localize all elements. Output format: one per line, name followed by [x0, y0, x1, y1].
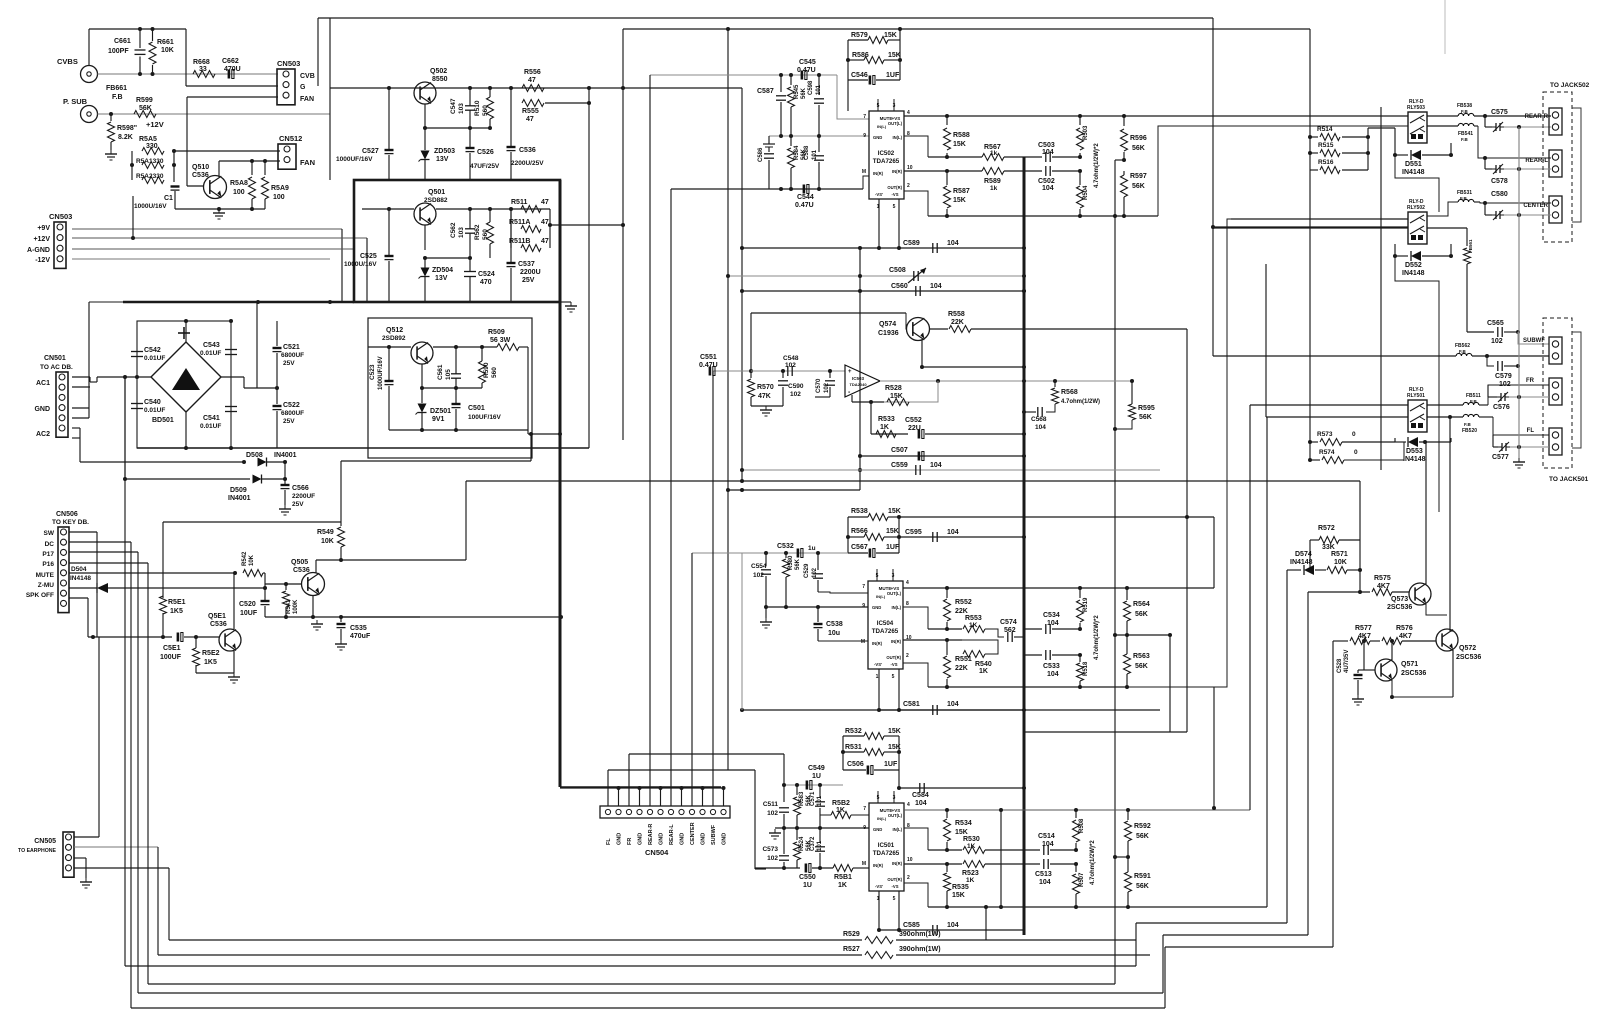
svg-text:R598": R598"	[117, 125, 137, 132]
capacitor C579	[1487, 356, 1494, 366]
zener DZ501	[418, 404, 427, 413]
svg-text:IN4148: IN4148	[1402, 270, 1425, 277]
svg-text:CN503: CN503	[49, 212, 72, 221]
ground	[1518, 458, 1520, 462]
svg-text:M: M	[861, 639, 865, 645]
svg-text:R586: R586	[852, 52, 869, 59]
svg-text:IN(L): IN(L)	[892, 135, 902, 140]
wire C507 row	[860, 455, 1024, 457]
svg-text:R508: R508	[1079, 818, 1085, 833]
svg-text:10u: 10u	[828, 630, 840, 637]
resistor R598	[110, 114, 112, 121]
ferrite FB562	[1456, 353, 1472, 356]
wire AC2 pair	[72, 427, 80, 429]
regulator box Q501	[354, 180, 560, 302]
op-amp IC502 TDA7265	[869, 111, 904, 199]
svg-text:R556: R556	[524, 69, 541, 76]
svg-text:IN(L): IN(L)	[892, 827, 902, 832]
wire R553 row	[928, 628, 962, 630]
svg-text:R531: R531	[845, 744, 862, 751]
svg-text:15K: 15K	[888, 52, 901, 59]
svg-text:100PF: 100PF	[108, 48, 129, 55]
svg-text:R552: R552	[955, 599, 972, 606]
svg-text:Q510: Q510	[192, 164, 209, 171]
capacitor C570	[829, 371, 831, 378]
resistor R549	[340, 522, 342, 526]
svg-text:R509: R509	[488, 329, 505, 336]
svg-text:Q512: Q512	[386, 327, 403, 334]
svg-text:-VS': -VS'	[874, 662, 882, 667]
svg-text:M: M	[862, 861, 866, 867]
wire -VS row	[878, 199, 880, 248]
svg-text:C547: C547	[450, 98, 457, 114]
svg-text:1K: 1K	[836, 807, 845, 814]
resistor R5A1	[142, 162, 164, 169]
svg-text:8550: 8550	[432, 76, 448, 83]
wire y490 row	[728, 489, 860, 491]
svg-text:GND: GND	[638, 833, 644, 845]
resistor R532	[843, 735, 864, 737]
svg-text:R538: R538	[851, 508, 868, 515]
svg-text:-12V: -12V	[35, 257, 50, 264]
capacitor C506	[867, 766, 870, 775]
capacitor C546	[869, 76, 872, 85]
wire gnd pins bus	[607, 770, 609, 806]
svg-text:R511B: R511B	[509, 238, 530, 245]
wire return bus	[1518, 127, 1520, 458]
wire top rail 1	[318, 17, 1213, 19]
resistor R5A9	[264, 161, 266, 175]
resistor FB561	[1466, 228, 1468, 246]
wire IN(R) row	[904, 170, 960, 172]
svg-text:C529: C529	[804, 563, 810, 578]
svg-text:102: 102	[824, 382, 830, 393]
svg-text:R661: R661	[157, 39, 174, 46]
svg-text:56K: 56K	[1132, 145, 1145, 152]
svg-text:1U: 1U	[803, 882, 812, 889]
svg-text:F.B: F.B	[1461, 109, 1469, 114]
svg-text:R553: R553	[965, 615, 982, 622]
dashed jack501 outline	[1543, 318, 1572, 468]
svg-text:C508: C508	[889, 267, 906, 274]
resistor R576	[1382, 638, 1402, 645]
resistor R5B1	[833, 865, 853, 872]
svg-text:IN(R): IN(R)	[872, 641, 883, 646]
wire Q501 row	[362, 208, 414, 210]
wire FL signal	[1493, 417, 1549, 435]
svg-text:C540: C540	[144, 399, 161, 406]
wire long vertical x1115	[1114, 216, 1116, 984]
svg-text:9: 9	[863, 825, 866, 831]
svg-text:Q502: Q502	[430, 68, 447, 75]
svg-text:FAN: FAN	[300, 158, 315, 167]
capacitor C550	[755, 867, 800, 869]
svg-text:1: 1	[876, 674, 879, 680]
wire Q512 row	[368, 346, 411, 348]
wire out corner to REAR-L	[1158, 126, 1408, 216]
svg-text:390ohm(1W): 390ohm(1W)	[899, 946, 941, 953]
capacitor C551	[709, 367, 712, 376]
wire rear-l signal	[1478, 126, 1551, 158]
wire top rail 2	[623, 28, 1310, 30]
svg-text:C565: C565	[1487, 320, 1504, 327]
svg-text:-VS': -VS'	[875, 884, 883, 889]
svg-text:56K: 56K	[1135, 611, 1148, 618]
svg-text:C538: C538	[826, 621, 843, 628]
svg-text:F.B: F.B	[1464, 422, 1472, 427]
wire C560 row	[742, 290, 1024, 292]
resistor R577	[1333, 640, 1348, 642]
ground	[218, 209, 220, 213]
svg-text:FB561: FB561	[1468, 239, 1473, 253]
svg-text:56 3W: 56 3W	[490, 337, 511, 344]
svg-text:F.B: F.B	[1470, 399, 1478, 404]
svg-text:C571: C571	[810, 791, 816, 806]
svg-text:R558: R558	[948, 311, 965, 318]
bridge rectifier BD501	[151, 342, 221, 412]
svg-text:GND: GND	[873, 827, 882, 832]
wire emitter	[921, 340, 923, 367]
svg-text:9: 9	[862, 603, 865, 609]
capacitor C526	[469, 128, 471, 147]
wire OUT(L) row	[904, 809, 1250, 811]
svg-text:R533: R533	[878, 416, 895, 423]
resistor R575	[1372, 589, 1392, 596]
svg-text:R551: R551	[955, 656, 972, 663]
svg-text:2200UF: 2200UF	[292, 493, 315, 500]
svg-text:R590: R590	[483, 362, 490, 378]
resistor R558	[929, 328, 948, 330]
svg-text:1K: 1K	[966, 877, 975, 884]
svg-text:D552: D552	[1405, 262, 1422, 269]
svg-text:R5B2: R5B2	[832, 800, 850, 807]
svg-text:C502: C502	[1038, 178, 1055, 185]
svg-text:C536: C536	[293, 567, 310, 574]
svg-text:Q571: Q571	[1401, 661, 1418, 668]
connector CN504	[600, 806, 730, 818]
svg-text:DZ501: DZ501	[430, 408, 451, 415]
svg-text:R511A: R511A	[509, 219, 530, 226]
svg-text:R518: R518	[1083, 661, 1089, 676]
wire input row rear-r	[650, 74, 837, 76]
svg-text:101: 101	[817, 795, 823, 806]
wire collector Q510	[218, 161, 220, 177]
resistor R511B	[521, 245, 541, 252]
capacitor C585 row	[879, 929, 1024, 931]
wire thick bus x1024	[1023, 157, 1026, 935]
wire output	[880, 380, 1132, 382]
wire relay3 in1	[1250, 404, 1408, 406]
svg-text:C533: C533	[1043, 663, 1060, 670]
wire collector	[233, 573, 235, 629]
wire q571 base	[1364, 669, 1375, 671]
svg-text:7: 7	[863, 114, 866, 120]
svg-text:R584: R584	[794, 145, 800, 160]
capacitor C547	[465, 105, 475, 107]
svg-text:4: 4	[907, 802, 910, 808]
capacitor C533	[1024, 654, 1042, 656]
svg-text:OUT(L): OUT(L)	[888, 813, 903, 818]
svg-text:104: 104	[1047, 620, 1059, 627]
resistor R592	[1127, 810, 1129, 820]
svg-text:56K: 56K	[1136, 833, 1149, 840]
dashed jack502 outline	[1543, 92, 1572, 242]
svg-text:4K7: 4K7	[1399, 633, 1412, 640]
svg-text:IN4001: IN4001	[274, 452, 297, 459]
svg-text:10: 10	[907, 857, 913, 863]
wire R567 row	[928, 156, 960, 158]
svg-text:R528: R528	[885, 385, 902, 392]
svg-text:GND: GND	[873, 135, 882, 140]
resistor R589	[982, 168, 1004, 175]
transistor Q573	[1409, 583, 1431, 605]
wire OUT(R) jog	[904, 191, 928, 216]
wire bottom bus 3	[125, 965, 1136, 967]
op-amp IC504 TDA7265	[868, 581, 903, 669]
ferrite FB538	[1458, 113, 1474, 116]
svg-text:330: 330	[146, 143, 158, 150]
svg-text:0.47U: 0.47U	[797, 67, 816, 74]
svg-text:C507: C507	[891, 447, 908, 454]
svg-text:105: 105	[445, 369, 452, 380]
transistor Q501	[414, 203, 436, 225]
capacitor C577	[1492, 435, 1494, 447]
svg-text:R534: R534	[955, 820, 972, 827]
wire bottom bus 1 R529 row	[169, 939, 862, 941]
svg-text:25V: 25V	[292, 501, 304, 508]
ground	[751, 405, 783, 407]
svg-text:25V: 25V	[283, 418, 295, 425]
wire IN(L) jog	[904, 136, 928, 157]
resistor R5A5	[131, 151, 133, 180]
wire relay coil	[1367, 128, 1369, 170]
resistor R545	[790, 75, 792, 85]
capacitor C527	[388, 88, 390, 149]
capacitor C514	[1043, 845, 1045, 855]
svg-text:C552: C552	[905, 417, 922, 424]
svg-text:C536: C536	[192, 172, 209, 179]
svg-text:R599: R599	[136, 97, 153, 104]
capacitor C532	[797, 549, 800, 558]
capacitor C581 row	[879, 709, 1024, 711]
svg-text:IC502: IC502	[878, 150, 895, 157]
diode D552	[1394, 244, 1396, 256]
wire x1187	[1186, 329, 1188, 732]
wire +9V	[72, 228, 342, 230]
svg-text:TO KEY DB.: TO KEY DB.	[52, 519, 89, 526]
svg-text:6800UF: 6800UF	[281, 352, 304, 359]
ground	[233, 673, 235, 677]
svg-text:1UF: 1UF	[886, 72, 900, 79]
svg-text:C525: C525	[360, 253, 377, 260]
svg-text:102: 102	[790, 391, 801, 398]
svg-text:5: 5	[892, 674, 895, 680]
svg-text:390ohm(1W): 390ohm(1W)	[899, 931, 941, 938]
svg-text:IC504: IC504	[877, 620, 894, 627]
resistor R579	[848, 39, 868, 41]
capacitor C1	[171, 185, 180, 187]
svg-text:C1: C1	[164, 195, 173, 202]
svg-text:R572: R572	[1318, 525, 1335, 532]
svg-text:R577: R577	[1355, 625, 1372, 632]
svg-text:RLY502: RLY502	[1407, 205, 1425, 211]
svg-text:M: M	[862, 169, 866, 175]
svg-text:104: 104	[930, 462, 942, 469]
wire emitter	[233, 651, 235, 673]
svg-text:D553: D553	[1406, 448, 1423, 455]
transistor Q502	[414, 82, 436, 104]
svg-text:56K: 56K	[139, 105, 152, 112]
capacitor C574	[1007, 632, 1009, 642]
svg-text:IN(L): IN(L)	[876, 594, 886, 599]
svg-text:33: 33	[199, 66, 207, 73]
svg-text:102: 102	[753, 572, 764, 579]
wire emitter	[424, 104, 426, 146]
svg-text:2: 2	[907, 183, 910, 189]
svg-text:C575: C575	[1491, 109, 1508, 116]
svg-text:22K: 22K	[951, 319, 964, 326]
svg-text:FR: FR	[627, 838, 633, 845]
svg-text:22U: 22U	[908, 425, 921, 432]
wire row	[265, 616, 420, 618]
svg-text:2SC536: 2SC536	[1401, 670, 1426, 677]
diode D509	[125, 478, 250, 480]
svg-text:OUT(R): OUT(R)	[887, 185, 902, 190]
svg-text:102: 102	[785, 362, 796, 369]
transistor Q505	[302, 573, 325, 596]
capacitor C587	[780, 75, 782, 92]
wire bottom bus 6	[131, 1007, 1165, 1009]
svg-text:7: 7	[863, 806, 866, 812]
capacitor C508 variable	[913, 271, 915, 281]
wire in row	[671, 188, 863, 190]
wire C551 input	[713, 370, 751, 372]
capacitor C544	[803, 185, 806, 194]
svg-text:OUT(R): OUT(R)	[886, 655, 901, 660]
svg-text:C545: C545	[799, 59, 816, 66]
svg-text:GND: GND	[872, 605, 881, 610]
svg-text:RLY503: RLY503	[1407, 105, 1425, 111]
svg-text:15K: 15K	[884, 32, 897, 39]
wire q571 emitter	[1392, 680, 1453, 697]
svg-text:Z-MU: Z-MU	[38, 582, 55, 589]
resistor R574	[1310, 459, 1320, 461]
wire q571 collector	[1391, 641, 1393, 660]
svg-text:104: 104	[1047, 671, 1059, 678]
wire vertical x742 supply	[741, 88, 743, 481]
wire	[124, 377, 126, 479]
wire filter out	[550, 224, 623, 226]
capacitor C520	[264, 588, 266, 600]
svg-text:5: 5	[893, 204, 896, 210]
svg-text:101: 101	[817, 840, 823, 851]
wire C559 row	[742, 469, 1160, 471]
svg-text:C543: C543	[203, 342, 220, 349]
svg-text:562: 562	[1004, 627, 1016, 634]
wire R596 tap	[1115, 159, 1124, 161]
svg-text:100: 100	[233, 189, 245, 196]
svg-text:R568: R568	[1061, 389, 1078, 396]
resistor R590	[479, 361, 486, 383]
capacitor C571	[819, 785, 821, 798]
wire emitter q505	[312, 596, 314, 617]
resistor R583	[796, 785, 798, 795]
transistor Q5E1	[219, 629, 241, 651]
svg-text:C536: C536	[519, 147, 536, 154]
resistor R584	[790, 136, 792, 146]
capacitor C548	[787, 366, 789, 376]
wire	[847, 517, 849, 553]
resistor R523	[963, 861, 985, 868]
capacitor C567	[869, 549, 872, 558]
svg-text:R570: R570	[757, 384, 774, 391]
wire pin4	[74, 867, 169, 869]
svg-text:R527: R527	[843, 946, 860, 953]
svg-text:104: 104	[1039, 879, 1051, 886]
svg-text:2SC536: 2SC536	[1387, 604, 1412, 611]
wire signal verticals	[649, 75, 651, 770]
wire x1213 to subwf	[1213, 355, 1230, 357]
svg-text:1u: 1u	[808, 545, 816, 552]
svg-text:0.01UF: 0.01UF	[144, 355, 165, 362]
svg-text:R579: R579	[851, 32, 868, 39]
svg-text:TDA7265: TDA7265	[873, 850, 900, 857]
svg-text:R5A1330: R5A1330	[136, 158, 164, 165]
wire vertical x589	[588, 88, 590, 448]
svg-text:15K: 15K	[952, 892, 965, 899]
svg-text:R555: R555	[522, 108, 539, 115]
svg-text:560: 560	[482, 105, 489, 116]
transistor Q512	[411, 342, 433, 364]
capacitor C661	[139, 29, 141, 48]
svg-text:RLY501: RLY501	[1407, 393, 1425, 399]
ground	[774, 829, 776, 833]
svg-text:IN4148: IN4148	[1290, 559, 1313, 566]
svg-text:7: 7	[862, 584, 865, 590]
svg-text:25V: 25V	[522, 277, 535, 284]
capacitor C523	[388, 347, 390, 380]
wire AC1	[72, 376, 90, 378]
svg-text:1UF: 1UF	[886, 544, 900, 551]
svg-text:R589: R589	[984, 178, 1001, 185]
node P.SUB input jack	[81, 106, 98, 123]
svg-text:REAR-L: REAR-L	[1525, 158, 1548, 164]
svg-text:C662: C662	[222, 58, 239, 65]
capacitor C595 row	[899, 536, 1024, 538]
resistor R553	[963, 626, 985, 633]
wire G return	[185, 29, 187, 86]
svg-text:AC1: AC1	[36, 380, 50, 387]
svg-text:R562: R562	[474, 224, 481, 240]
capacitor C522	[276, 388, 278, 404]
svg-text:C535: C535	[350, 625, 367, 632]
svg-text:CN506: CN506	[56, 511, 78, 518]
svg-text:1000U/16V: 1000U/16V	[134, 203, 167, 210]
svg-text:15K: 15K	[888, 508, 901, 515]
wire IN(R) row	[904, 863, 962, 865]
wire R538 row right	[899, 516, 1214, 518]
diode D551	[1394, 143, 1396, 155]
svg-text:C514: C514	[1038, 833, 1055, 840]
svg-text:A-GND: A-GND	[27, 247, 50, 254]
svg-text:102: 102	[812, 567, 818, 578]
svg-text:47: 47	[541, 199, 549, 206]
wire feedback	[884, 381, 938, 402]
resistor R571	[1327, 567, 1347, 574]
svg-text:R507: R507	[1079, 872, 1085, 887]
capacitor C529	[817, 553, 819, 570]
svg-text:15K: 15K	[886, 528, 899, 535]
